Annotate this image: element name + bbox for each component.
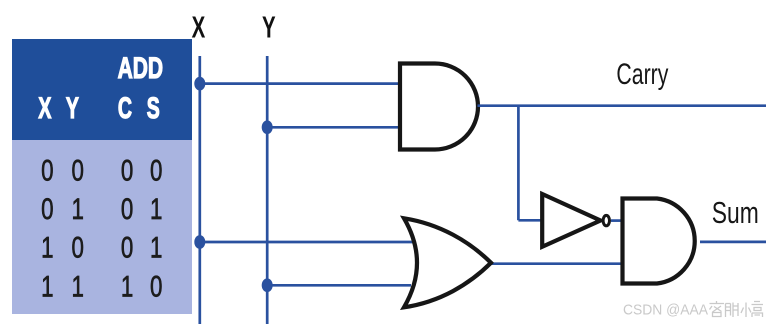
wire Carry branch down to NOT <box>517 106 520 221</box>
svg-text:1: 1 <box>121 269 133 303</box>
wire OR output to AND2 bottom input <box>490 262 623 265</box>
svg-text:1: 1 <box>150 230 162 264</box>
wire X vertical <box>198 56 201 324</box>
truth table body <box>12 140 192 314</box>
svg-text:X: X <box>192 9 206 44</box>
wire X to OR top input <box>200 241 413 244</box>
svg-text:0: 0 <box>41 192 53 226</box>
NOT gate U2 (inverter) <box>542 194 600 247</box>
svg-text:0: 0 <box>121 153 133 187</box>
svg-text:Y: Y <box>262 9 276 44</box>
svg-text:0: 0 <box>72 230 84 264</box>
net Sum label <box>712 195 759 230</box>
svg-text:S: S <box>147 92 160 125</box>
svg-text:0: 0 <box>150 269 162 303</box>
net Sum output wire <box>700 241 766 244</box>
svg-text:1: 1 <box>72 269 84 303</box>
wire Y to OR bottom input <box>267 284 411 287</box>
svg-text:0: 0 <box>121 230 133 264</box>
svg-text:Sum: Sum <box>712 195 759 230</box>
svg-text:0: 0 <box>150 153 162 187</box>
svg-text:CSDN @AAA: CSDN @AAA <box>623 302 708 319</box>
node X label <box>192 9 206 44</box>
AND gate U1 (Carry) <box>400 64 478 150</box>
truth table header <box>12 39 192 140</box>
node Y label <box>262 9 276 44</box>
svg-text:1: 1 <box>41 230 53 264</box>
junction dot Y/OR <box>262 278 273 292</box>
NOT gate bubble <box>603 215 609 225</box>
svg-text:1: 1 <box>150 192 162 226</box>
svg-text:1: 1 <box>41 269 53 303</box>
watermark CSDN <box>623 301 763 319</box>
net Carry output wire <box>478 104 766 107</box>
svg-text:0: 0 <box>72 153 84 187</box>
wire Y to AND1 bottom input <box>267 126 400 129</box>
junction dot X/AND1 <box>194 77 205 91</box>
wire Y vertical <box>266 56 269 324</box>
svg-text:C: C <box>118 92 132 125</box>
AND gate U3 (Sum) <box>623 199 695 284</box>
svg-text:0: 0 <box>41 153 53 187</box>
svg-text:X: X <box>38 92 51 125</box>
svg-text:Carry: Carry <box>616 58 668 91</box>
svg-text:1: 1 <box>72 192 84 226</box>
wire X to AND1 top input <box>200 82 400 85</box>
net Carry label <box>616 58 668 91</box>
svg-text:ADD: ADD <box>118 53 163 85</box>
OR gate U4 <box>404 218 491 307</box>
junction dot Y/AND1 <box>262 120 273 134</box>
svg-text:0: 0 <box>121 192 133 226</box>
wire NOT output to AND2 <box>611 219 623 222</box>
svg-text:Y: Y <box>66 92 79 125</box>
wire branch to NOT input <box>518 219 543 222</box>
junction dot X/OR <box>194 235 205 249</box>
